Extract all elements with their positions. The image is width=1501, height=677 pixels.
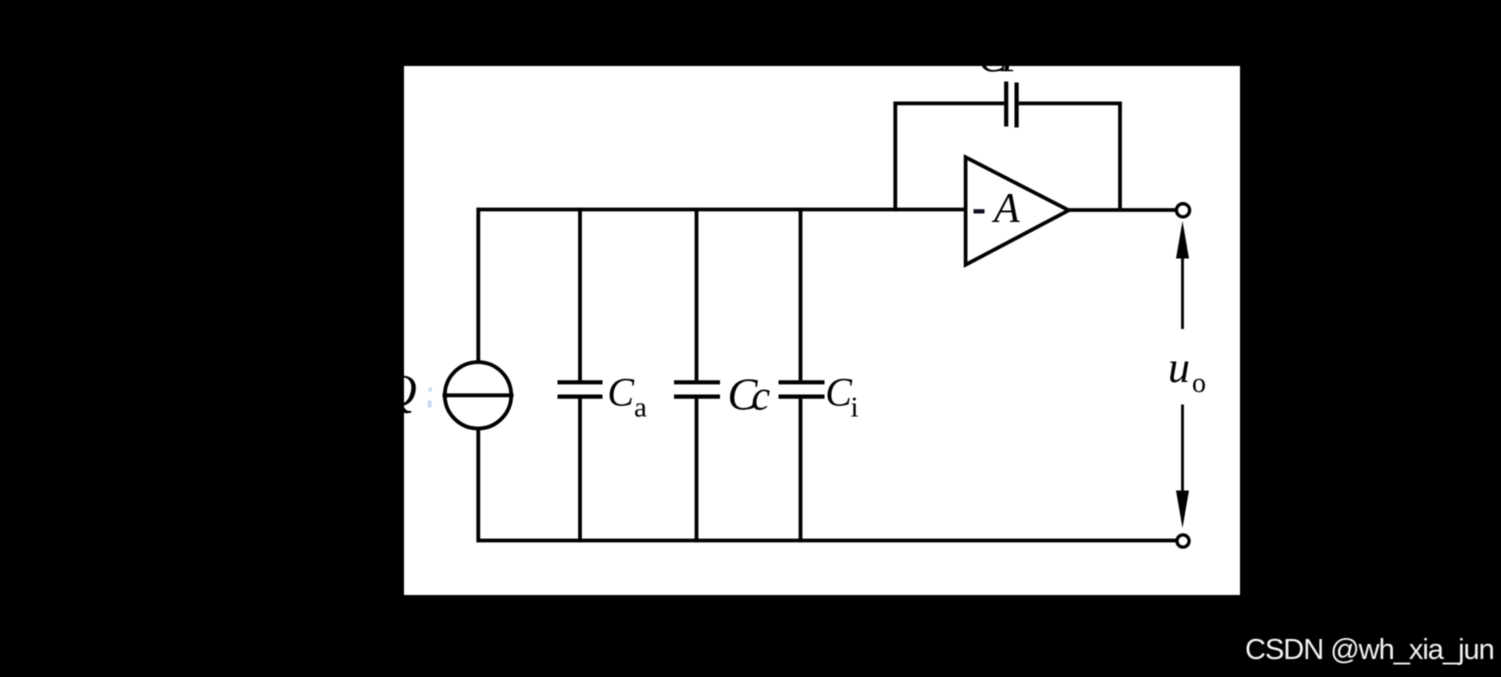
- wire Ci branch upper: [799, 208, 803, 381]
- wire Ca branch lower: [578, 399, 582, 543]
- capacitor Cc plates: [674, 382, 720, 396]
- svg-text:u: u: [1168, 343, 1190, 392]
- capacitor CF left plate: [1004, 82, 1008, 127]
- wire left vertical upper segment: [476, 208, 480, 363]
- arrow down (uo lower): [1176, 405, 1189, 529]
- wire Ci branch lower: [799, 399, 803, 543]
- svg-text:i: i: [851, 391, 859, 423]
- label CF (partially cropped by black band): [978, 32, 1029, 81]
- wire feedback right vertical: [1118, 102, 1122, 212]
- svg-text:CSDN @wh_xia_jun: CSDN @wh_xia_jun: [1245, 634, 1494, 666]
- svg-text:F: F: [1000, 32, 1029, 81]
- wire feedback left vertical: [893, 102, 897, 212]
- wire op-amp output line: [1067, 208, 1177, 212]
- wire Cc branch upper: [695, 208, 699, 381]
- label Ca: [607, 370, 647, 424]
- output terminal top: [1176, 204, 1189, 217]
- wire bottom bus: [477, 539, 1177, 543]
- wire left vertical lower segment: [476, 428, 480, 542]
- label uo: [1168, 343, 1206, 399]
- wire top bus / op-amp input line: [477, 208, 968, 212]
- wire feedback top-left horizontal: [894, 102, 1005, 106]
- svg-text:C: C: [825, 370, 853, 415]
- wire Cc branch lower: [695, 399, 699, 543]
- output terminal bottom: [1177, 535, 1189, 547]
- white drawing area: [404, 66, 1240, 595]
- svg-text:a: a: [634, 392, 647, 424]
- capacitor Ca plates: [558, 382, 603, 396]
- faint colon mark: [428, 388, 432, 408]
- wire Ca branch upper: [578, 208, 582, 381]
- svg-text:Q: Q: [384, 365, 417, 416]
- svg-text:A: A: [991, 186, 1020, 232]
- op-amp minus sign: [974, 209, 985, 213]
- capacitor Ci plates: [779, 382, 825, 396]
- charge source Q (circle with horizontal bar): [443, 362, 514, 428]
- op-amp A triangle: [966, 157, 1069, 265]
- svg-text:C: C: [607, 370, 635, 415]
- wire feedback top-right horizontal: [1019, 102, 1122, 106]
- svg-text:Cc: Cc: [728, 370, 771, 420]
- svg-text:o: o: [1192, 368, 1206, 399]
- capacitor CF right plate: [1014, 83, 1018, 128]
- label Ci: [825, 370, 858, 424]
- arrow up (uo upper): [1176, 221, 1189, 329]
